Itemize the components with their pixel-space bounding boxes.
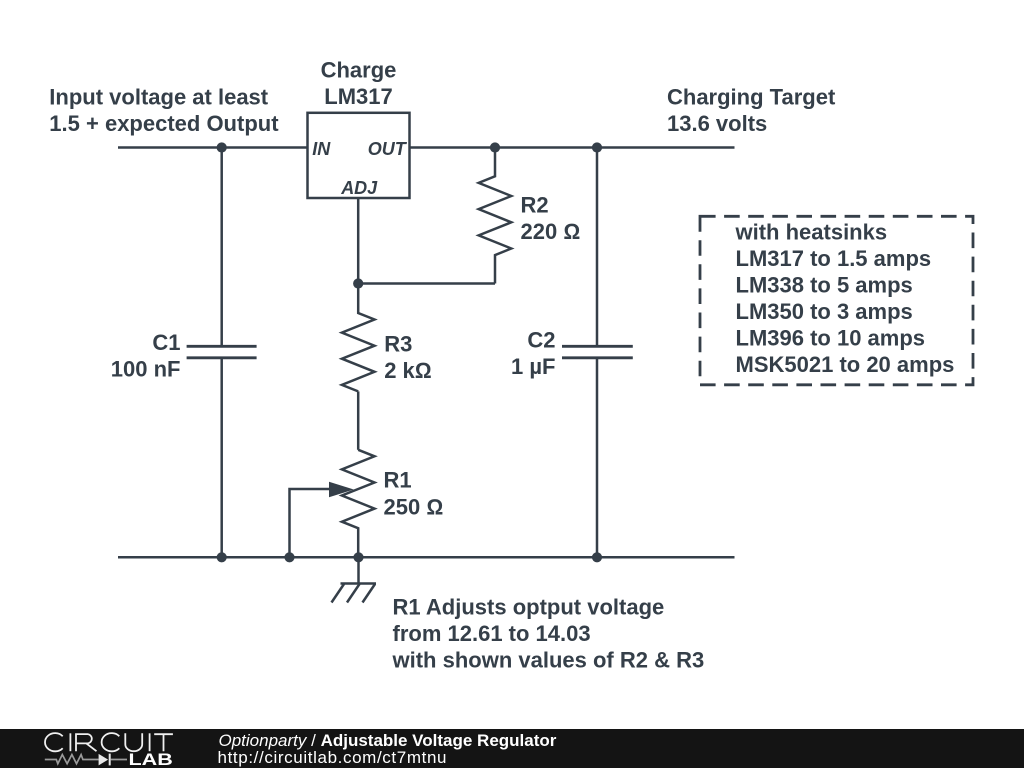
svg-text:LM396 to 10 amps: LM396 to 10 amps <box>736 325 926 350</box>
wire R3 to R1 <box>357 391 360 449</box>
wire top rail left <box>118 146 308 149</box>
capacitor C1 top wire <box>220 148 223 347</box>
logo CIRCUIT <box>45 733 173 751</box>
svg-text:with heatsinks: with heatsinks <box>735 219 888 244</box>
wire ADJ stem <box>357 198 360 284</box>
svg-text:R3: R3 <box>384 332 412 357</box>
svg-text:with shown values of R2 & R3: with shown values of R2 & R3 <box>392 648 705 673</box>
svg-text:ADJ: ADJ <box>340 178 378 198</box>
svg-text:R1: R1 <box>384 468 412 493</box>
svg-text:1 µF: 1 µF <box>511 354 555 379</box>
svg-text:220 Ω: 220 Ω <box>521 219 581 244</box>
svg-text:13.6 volts: 13.6 volts <box>667 111 767 136</box>
svg-text:Charge: Charge <box>321 58 397 83</box>
regulator U1 LM317 box <box>308 113 410 198</box>
wiper arrowhead <box>329 482 354 497</box>
svg-text:http://circuitlab.com/ct7mtnu: http://circuitlab.com/ct7mtnu <box>218 748 448 767</box>
node A input/C1 <box>217 142 227 152</box>
svg-text:LAB: LAB <box>129 751 173 768</box>
capacitor C2 plates <box>562 346 633 358</box>
svg-text:1.5 + expected Output: 1.5 + expected Output <box>49 111 279 136</box>
svg-text:LM338 to 5 amps: LM338 to 5 amps <box>736 272 913 297</box>
svg-text:MSK5021 to 20 amps: MSK5021 to 20 amps <box>736 352 955 377</box>
svg-text:LM317 to 1.5 amps: LM317 to 1.5 amps <box>736 246 932 271</box>
svg-text:C1: C1 <box>152 330 180 355</box>
ground <box>332 557 377 602</box>
wire ADJ to R2 bottom <box>358 282 495 285</box>
svg-text:100 nF: 100 nF <box>111 356 181 381</box>
capacitor C2 top wire <box>596 148 599 347</box>
svg-text:Optionparty / Adjustable Volta: Optionparty / Adjustable Voltage Regulat… <box>219 731 557 750</box>
logo diode <box>99 754 109 766</box>
svg-text:LM350 to 3 amps: LM350 to 3 amps <box>736 299 913 324</box>
wire R1 wiper <box>290 489 331 557</box>
node B out/R2 <box>490 142 500 152</box>
svg-text:Input voltage at least: Input voltage at least <box>49 85 268 110</box>
svg-text:OUT: OUT <box>368 139 408 159</box>
capacitor C1 plates <box>187 346 257 358</box>
node F gnd/wiper <box>284 552 294 562</box>
footer bar <box>0 729 1024 768</box>
logo resistor squiggle <box>45 755 99 764</box>
svg-text:250 Ω: 250 Ω <box>384 494 444 519</box>
node H gnd/C2 <box>592 552 602 562</box>
note box dashed <box>700 216 973 384</box>
svg-text:C2: C2 <box>527 327 555 352</box>
svg-text:IN: IN <box>312 139 331 159</box>
svg-text:LM317: LM317 <box>324 84 392 109</box>
svg-text:2 kΩ: 2 kΩ <box>384 358 431 383</box>
wire bottom rail <box>118 556 735 559</box>
node D adj <box>353 278 363 288</box>
wire top rail right <box>410 146 735 149</box>
node E gnd/C1 <box>217 552 227 562</box>
svg-text:from 12.61 to 14.03: from 12.61 to 14.03 <box>393 621 591 646</box>
svg-text:Charging Target: Charging Target <box>667 85 836 110</box>
resistor R2 <box>479 148 512 284</box>
node C out/C2 <box>592 142 602 152</box>
resistor R3 <box>342 284 375 392</box>
resistor R1 potentiometer <box>342 450 375 558</box>
svg-text:R1 Adjusts optput voltage: R1 Adjusts optput voltage <box>393 595 665 620</box>
capacitor C1 bottom wire <box>220 358 223 558</box>
node G gnd/R1 <box>353 552 363 562</box>
capacitor C2 bottom wire <box>596 358 599 558</box>
svg-text:R2: R2 <box>521 193 549 218</box>
